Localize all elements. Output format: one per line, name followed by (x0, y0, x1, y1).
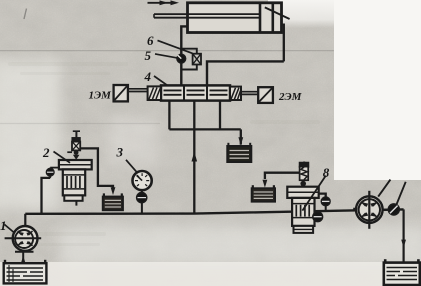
wire: drop to tank R (403, 209, 405, 267)
wire: stub A (168, 101, 170, 130)
body (63, 169, 85, 195)
piston rod (154, 13, 260, 15)
relief valve 8: left branch to tank T3 (265, 173, 304, 179)
scratch top-left (24, 9, 27, 20)
bottom box (64, 195, 82, 200)
motor M (356, 196, 383, 223)
pump P1 (24, 214, 26, 251)
check valve 6 (193, 54, 201, 65)
flange (59, 160, 92, 169)
stem (75, 131, 77, 138)
svg-text:1: 1 (0, 218, 7, 233)
gauge 3 assembly (141, 202, 143, 214)
wire: right port down (282, 25, 284, 62)
label 5 pointer (155, 54, 177, 58)
pump suction (22, 251, 24, 270)
svg-text:6: 6 (147, 33, 154, 48)
valve V4 body (161, 85, 230, 100)
valve position lines (164, 90, 228, 94)
solenoid 1EM box (114, 85, 128, 101)
solenoid 2EM box (258, 87, 273, 103)
lower ball (313, 212, 323, 222)
tank T1 (227, 143, 251, 162)
wire: collector (169, 128, 240, 130)
tank T2 (103, 193, 123, 210)
svg-text:4: 4 (144, 69, 152, 84)
bottom box (294, 226, 314, 233)
tank R (384, 259, 420, 285)
tank L (4, 260, 47, 284)
svg-text:2: 2 (42, 145, 50, 160)
pointer lines to motor and valve (378, 180, 390, 197)
ghost smudges (6, 62, 320, 246)
svg-text:5: 5 (145, 48, 152, 63)
gauge ball at 2 (49, 168, 51, 178)
white region right (334, 0, 421, 180)
svg-text:3: 3 (116, 145, 124, 160)
throttle bypass wire (181, 49, 197, 54)
wire: stub C (219, 101, 221, 130)
mottled light patches (0, 60, 421, 266)
label 6 pointer (158, 40, 193, 53)
flange (287, 187, 318, 198)
wire: left port down to valve (181, 26, 187, 85)
wire: to tank T1 (240, 129, 242, 144)
wire: across to valve (207, 61, 284, 85)
label 1 pointer (5, 225, 15, 233)
svg-text:8: 8 (323, 165, 330, 180)
left push rod (128, 88, 148, 90)
main line (25, 209, 403, 213)
spring (300, 167, 309, 181)
relief valve 8 stem (303, 162, 305, 167)
throttle 5 (177, 54, 186, 63)
wire: riser to relief valve 2 (42, 178, 51, 214)
right push rod (241, 91, 258, 93)
cylinder C body (188, 3, 282, 33)
light strip bottom (0, 262, 421, 286)
motion arrow (148, 2, 172, 4)
tank T3 (252, 185, 275, 201)
left spring (148, 86, 161, 100)
right spring (230, 87, 241, 100)
label 8 pointer (302, 176, 325, 211)
pointer to piston (265, 7, 290, 19)
svg-text:2ЭМ: 2ЭМ (278, 91, 303, 103)
svg-text:1ЭМ: 1ЭМ (89, 90, 113, 102)
body (292, 198, 314, 226)
drain wire to T2 (80, 148, 113, 188)
small valve ball right (388, 204, 399, 215)
label 3 pointer (126, 160, 137, 172)
piston (259, 4, 262, 32)
label 2 pointer (54, 152, 71, 163)
label 4 pointer (154, 76, 168, 86)
faint scan line (0, 50, 334, 52)
wire: stub B to main (193, 101, 195, 214)
right pipe with ball (319, 194, 326, 198)
